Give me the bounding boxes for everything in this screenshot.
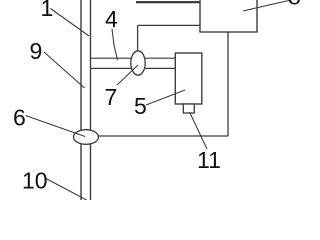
wall (double vertical line): [81, 0, 91, 200]
svg-text:5: 5: [134, 93, 147, 119]
valve 7 (ellipse): [131, 51, 145, 75]
top duct line: [136, 1, 200, 3]
box 8: [200, 0, 257, 32]
wire riser to valve 7: [137, 25, 139, 52]
svg-text:9: 9: [30, 38, 43, 64]
leader 4: [112, 29, 118, 60]
leader 11: [190, 112, 208, 149]
svg-text:4: 4: [105, 6, 118, 32]
upper pipe horizontal: [138, 24, 200, 26]
svg-text:6: 6: [13, 105, 26, 131]
box 5: [175, 53, 202, 104]
leader 1: [51, 9, 90, 37]
box 11 (small plug): [183, 104, 194, 113]
leader 7: [117, 65, 138, 85]
svg-text:8: 8: [288, 0, 300, 10]
svg-text:11: 11: [197, 147, 221, 173]
svg-text:1: 1: [41, 0, 54, 21]
svg-text:7: 7: [105, 84, 118, 110]
wire from box 8 down: [227, 32, 229, 136]
leader 10: [45, 178, 87, 200]
leader 8: [243, 0, 291, 11]
pipe (double line) right of valve to box 5: [144, 58, 175, 68]
pipe 4 (double line) left of valve: [91, 58, 133, 68]
valve 6 (ellipse on wall): [74, 130, 99, 145]
leader 5: [146, 90, 185, 105]
bottom connector wire: [98, 135, 229, 137]
leader 6: [26, 116, 86, 137]
leader 9: [44, 52, 85, 88]
svg-text:10: 10: [22, 168, 48, 194]
